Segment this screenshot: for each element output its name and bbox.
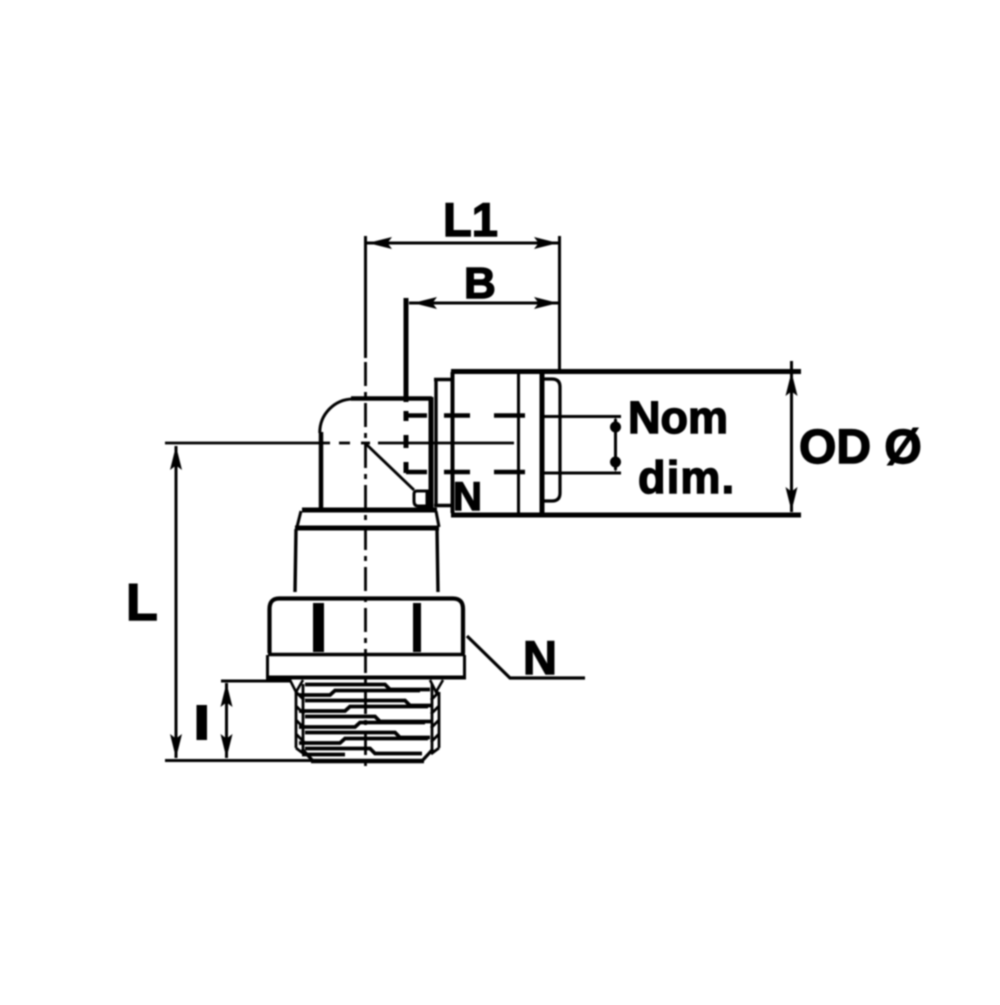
dimension B — [409, 297, 558, 309]
threads — [290, 680, 443, 761]
svg-text:N: N — [453, 475, 482, 519]
svg-text:N: N — [523, 631, 557, 684]
label I text — [197, 705, 208, 740]
mini dimension Nom dim — [611, 417, 621, 472]
cone section — [295, 529, 438, 592]
svg-text:Nom: Nom — [628, 392, 728, 443]
tube bore thin lines — [544, 417, 621, 474]
svg-text:B: B — [464, 259, 496, 308]
dimension L1 — [366, 236, 560, 370]
dimension OD — [786, 361, 798, 512]
flange under elbow — [295, 510, 439, 528]
dimension L — [165, 446, 318, 761]
horizontal centerline — [165, 442, 514, 445]
vertical centerline — [364, 362, 367, 767]
hidden bore line vertical (tube end wall), thick: solid above, dashed inside — [404, 298, 409, 473]
cartridge body + tube outline — [451, 372, 801, 516]
label N2 — [467, 636, 585, 678]
svg-text:OD Ø: OD Ø — [799, 421, 922, 474]
hex nut — [266, 599, 466, 678]
svg-text:L1: L1 — [443, 193, 498, 246]
hidden bore lines horizontal (dashed) — [406, 416, 525, 473]
dimension I — [221, 681, 292, 758]
internal diagonal and corner square — [366, 444, 427, 506]
cartridge ring — [434, 372, 453, 513]
thread hatch lines — [299, 685, 431, 755]
svg-text:L: L — [126, 574, 158, 632]
elbow body outline — [320, 397, 432, 512]
svg-text:dim.: dim. — [638, 452, 735, 503]
